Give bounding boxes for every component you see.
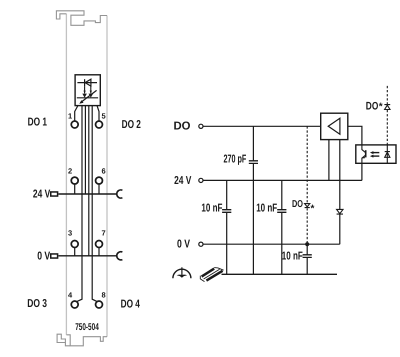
svg-text:DO 4: DO 4: [121, 299, 141, 311]
terminal 5: [96, 121, 103, 128]
svg-text:8: 8: [102, 291, 106, 300]
op-amp triangle: [328, 118, 340, 134]
wire to terminal 1: [75, 106, 78, 122]
capacitor 10nF bottom plates: [303, 255, 312, 258]
junction dot 0V: [305, 242, 309, 246]
svg-text:0 V: 0 V: [37, 251, 50, 263]
0V feed wire: [58, 255, 116, 257]
internal wire to terminal 4: [76, 106, 82, 302]
svg-text:0 V: 0 V: [177, 239, 190, 251]
svg-text:DO 1: DO 1: [28, 116, 48, 128]
svg-text:24 V: 24 V: [33, 189, 51, 201]
internal wire to 24V rail: [84, 106, 86, 194]
capacitor 270pF branch: [252, 126, 254, 274]
terminal 2: [71, 177, 78, 184]
module right edge: [106, 16, 108, 337]
optocoupler box: [356, 145, 396, 163]
suppressor diode DO: [305, 204, 310, 208]
output diode: [384, 105, 390, 110]
stub terminal 7 to 0V: [98, 247, 100, 255]
capacitor 10nF first plates: [222, 210, 231, 213]
svg-text:1: 1: [68, 112, 72, 121]
module bottom release hook: [57, 334, 65, 342]
optocoupler LED: [385, 145, 390, 163]
0V jumper contact arc: [117, 252, 123, 260]
capacitor 10nF second plates: [277, 210, 286, 213]
dashed output line: [386, 86, 388, 145]
status LED box: [75, 75, 100, 106]
terminal square 0V: [51, 254, 58, 258]
phototransistor: [362, 145, 366, 163]
DIN rail symbol: [200, 268, 223, 282]
internal wire to 0V rail: [88, 106, 90, 256]
op-amp U1: [321, 113, 348, 139]
svg-text:24 V: 24 V: [174, 175, 192, 187]
light arrows: [370, 151, 379, 158]
24V jumper contact arc: [117, 190, 123, 198]
dashed DO internal line: [306, 126, 308, 244]
svg-text:DO 2: DO 2: [122, 119, 141, 131]
svg-text:DO: DO: [174, 120, 191, 132]
24V feed wire: [58, 193, 116, 195]
svg-text:*: *: [379, 101, 383, 112]
capacitor 10nF second branch: [281, 180, 283, 274]
capacitor 270pF plates: [249, 161, 258, 164]
svg-text:5: 5: [102, 112, 106, 121]
svg-text:7: 7: [102, 229, 106, 238]
diode D1 in LED box: [77, 79, 97, 86]
24V wire: [203, 179, 362, 181]
wire to terminal 5: [97, 106, 99, 122]
diode branch wire: [339, 140, 341, 245]
capacitor 10nF first branch: [226, 180, 228, 274]
module bottom foot lip: [65, 343, 70, 346]
svg-text:10 nF: 10 nF: [256, 203, 277, 215]
svg-text:750-504: 750-504: [75, 322, 99, 333]
module left edge: [65, 14, 67, 335]
terminal 6: [96, 177, 103, 184]
terminal 4: [71, 301, 78, 308]
terminal square 24V: [51, 192, 58, 196]
internal wire to terminal 8: [92, 106, 98, 302]
node 0V: [199, 242, 203, 246]
svg-text:DO: DO: [366, 101, 379, 113]
svg-text:6: 6: [102, 167, 106, 176]
stub terminal 2 to 24V: [74, 184, 76, 194]
functional earth symbol: [173, 267, 191, 278]
terminal 8: [96, 301, 103, 308]
svg-text:*: *: [311, 204, 315, 215]
0V wire: [203, 243, 340, 245]
stub terminal 3 to 0V: [74, 247, 76, 255]
module bottom profile: [66, 335, 107, 346]
DO wire: [203, 125, 321, 127]
terminal 3: [71, 241, 78, 248]
status LED indicators: [77, 86, 98, 104]
node DO: [199, 124, 203, 128]
op-amp supply wire: [328, 140, 330, 181]
svg-text:3: 3: [68, 229, 72, 238]
stub terminal 6 to 24V: [98, 184, 100, 194]
node 24V: [199, 178, 203, 182]
svg-text:270 pF: 270 pF: [224, 153, 247, 165]
terminal 7: [96, 241, 103, 248]
svg-text:2: 2: [68, 167, 72, 176]
terminal 1: [71, 121, 78, 128]
chassis ground rail: [222, 273, 338, 275]
op-amp output wire: [348, 126, 362, 145]
svg-text:4: 4: [68, 291, 73, 300]
capacitor 10nF bottom branch: [306, 244, 308, 274]
module top profile: [56, 11, 107, 25]
optocoupler bottom pin: [361, 163, 363, 180]
svg-text:DO 3: DO 3: [27, 298, 47, 310]
diode symbol: [337, 209, 343, 214]
svg-text:10 nF: 10 nF: [201, 203, 222, 215]
svg-text:10 nF: 10 nF: [282, 251, 303, 263]
svg-text:DO: DO: [292, 199, 303, 210]
